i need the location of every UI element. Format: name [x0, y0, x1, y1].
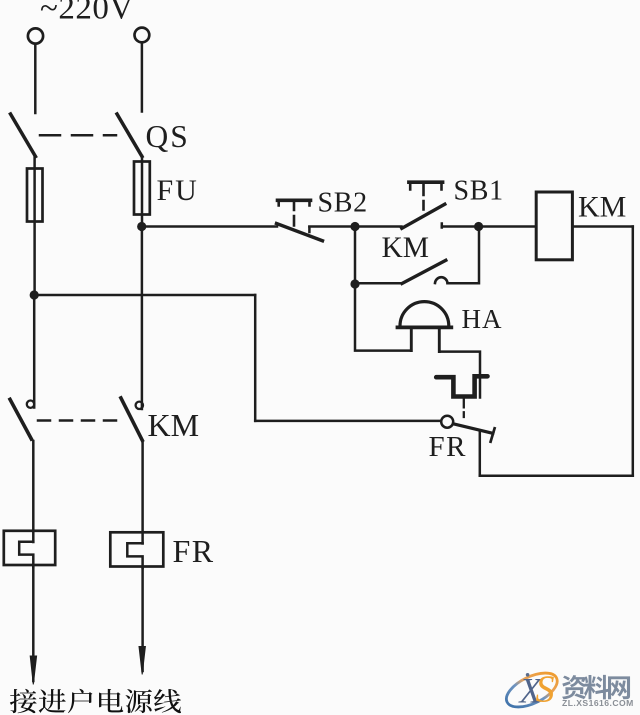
contact KM main left blade — [10, 399, 31, 439]
contact KM main right arc — [136, 402, 143, 409]
pushbutton SB2 blade — [277, 224, 323, 241]
wire — [34, 294, 255, 297]
terminal L — [28, 28, 43, 43]
watermark 资料网 — [562, 675, 586, 699]
terminal N — [135, 28, 150, 43]
node C junction — [350, 279, 359, 288]
svg-text:KM: KM — [148, 407, 200, 443]
wire — [141, 156, 144, 227]
node: fuse output junction — [137, 222, 146, 231]
pushbutton SB1 (NO) plunger — [410, 182, 441, 209]
caption 接进户电源线 — [10, 689, 37, 713]
svg-text:FR: FR — [429, 431, 467, 463]
wire — [141, 227, 144, 410]
wire — [141, 43, 144, 112]
wire — [448, 227, 480, 284]
wire right side down — [632, 227, 635, 476]
svg-text:FU: FU — [157, 174, 199, 207]
contact KM auxiliary blade — [402, 260, 446, 283]
wire — [32, 441, 35, 542]
wire — [355, 284, 411, 351]
watermark swoosh ellipse — [501, 666, 562, 714]
wire — [479, 432, 482, 476]
wire — [355, 225, 402, 228]
pushbutton SB2 fixed contact — [308, 227, 311, 232]
contact KM main left arc — [27, 401, 34, 408]
contact KM main right blade — [121, 398, 142, 440]
KM main linkage dashed — [38, 419, 119, 422]
wire — [479, 225, 536, 228]
wire — [442, 225, 479, 228]
thermal element FR left detour — [19, 542, 33, 567]
wire — [33, 156, 36, 295]
FR trip actuator bar — [436, 376, 487, 396]
svg-text:SB2: SB2 — [318, 188, 368, 219]
bell HA — [400, 302, 449, 326]
contactor coil KM — [536, 192, 572, 260]
svg-text:S: S — [536, 669, 555, 711]
svg-text:QS: QS — [146, 119, 190, 154]
switch QS left blade — [11, 114, 36, 157]
svg-text:~220V: ~220V — [40, 0, 134, 27]
linkage dashed stem — [463, 399, 465, 417]
pushbutton SB2 (NC) plunger — [279, 200, 310, 225]
wire bottom return — [480, 474, 633, 477]
QS linkage dashed — [40, 134, 116, 137]
thermal element FR left box — [4, 531, 55, 565]
fuse FU right — [134, 162, 150, 215]
contact KM auxiliary arc — [435, 277, 448, 283]
svg-text:KM: KM — [382, 232, 430, 264]
switch QS right blade — [117, 114, 142, 157]
svg-text:SB1: SB1 — [454, 176, 504, 207]
wire — [254, 295, 257, 421]
wire — [141, 443, 144, 544]
wire — [309, 225, 355, 228]
svg-text:FR: FR — [173, 533, 215, 569]
wire — [572, 225, 632, 228]
thermal relay FR blade — [453, 424, 493, 434]
wire — [354, 227, 357, 285]
wire — [142, 225, 277, 228]
wire — [33, 295, 36, 408]
fuse FU left — [27, 169, 43, 222]
wire — [34, 44, 37, 113]
pushbutton SB1 blade — [402, 204, 445, 228]
svg-text:ZL.XS1616.COM: ZL.XS1616.COM — [562, 698, 634, 708]
wire — [439, 352, 480, 398]
thermal element FR right detour — [127, 543, 142, 568]
pushbutton SB1 fixed contact — [441, 224, 444, 228]
thermal element FR right box — [110, 532, 163, 566]
node D junction — [30, 290, 39, 299]
svg-text:KM: KM — [578, 191, 626, 224]
thermal relay FR contact pivot — [441, 416, 453, 428]
node B junction — [474, 222, 483, 231]
arrow left feeder — [32, 567, 35, 681]
wire — [255, 420, 440, 423]
svg-text:HA: HA — [462, 304, 503, 334]
thermal relay FR fixed contact tick — [491, 428, 495, 441]
node A junction — [350, 222, 359, 231]
watermark sparkle dot — [526, 673, 530, 677]
arrow right feeder — [141, 568, 144, 671]
wire — [355, 282, 402, 285]
